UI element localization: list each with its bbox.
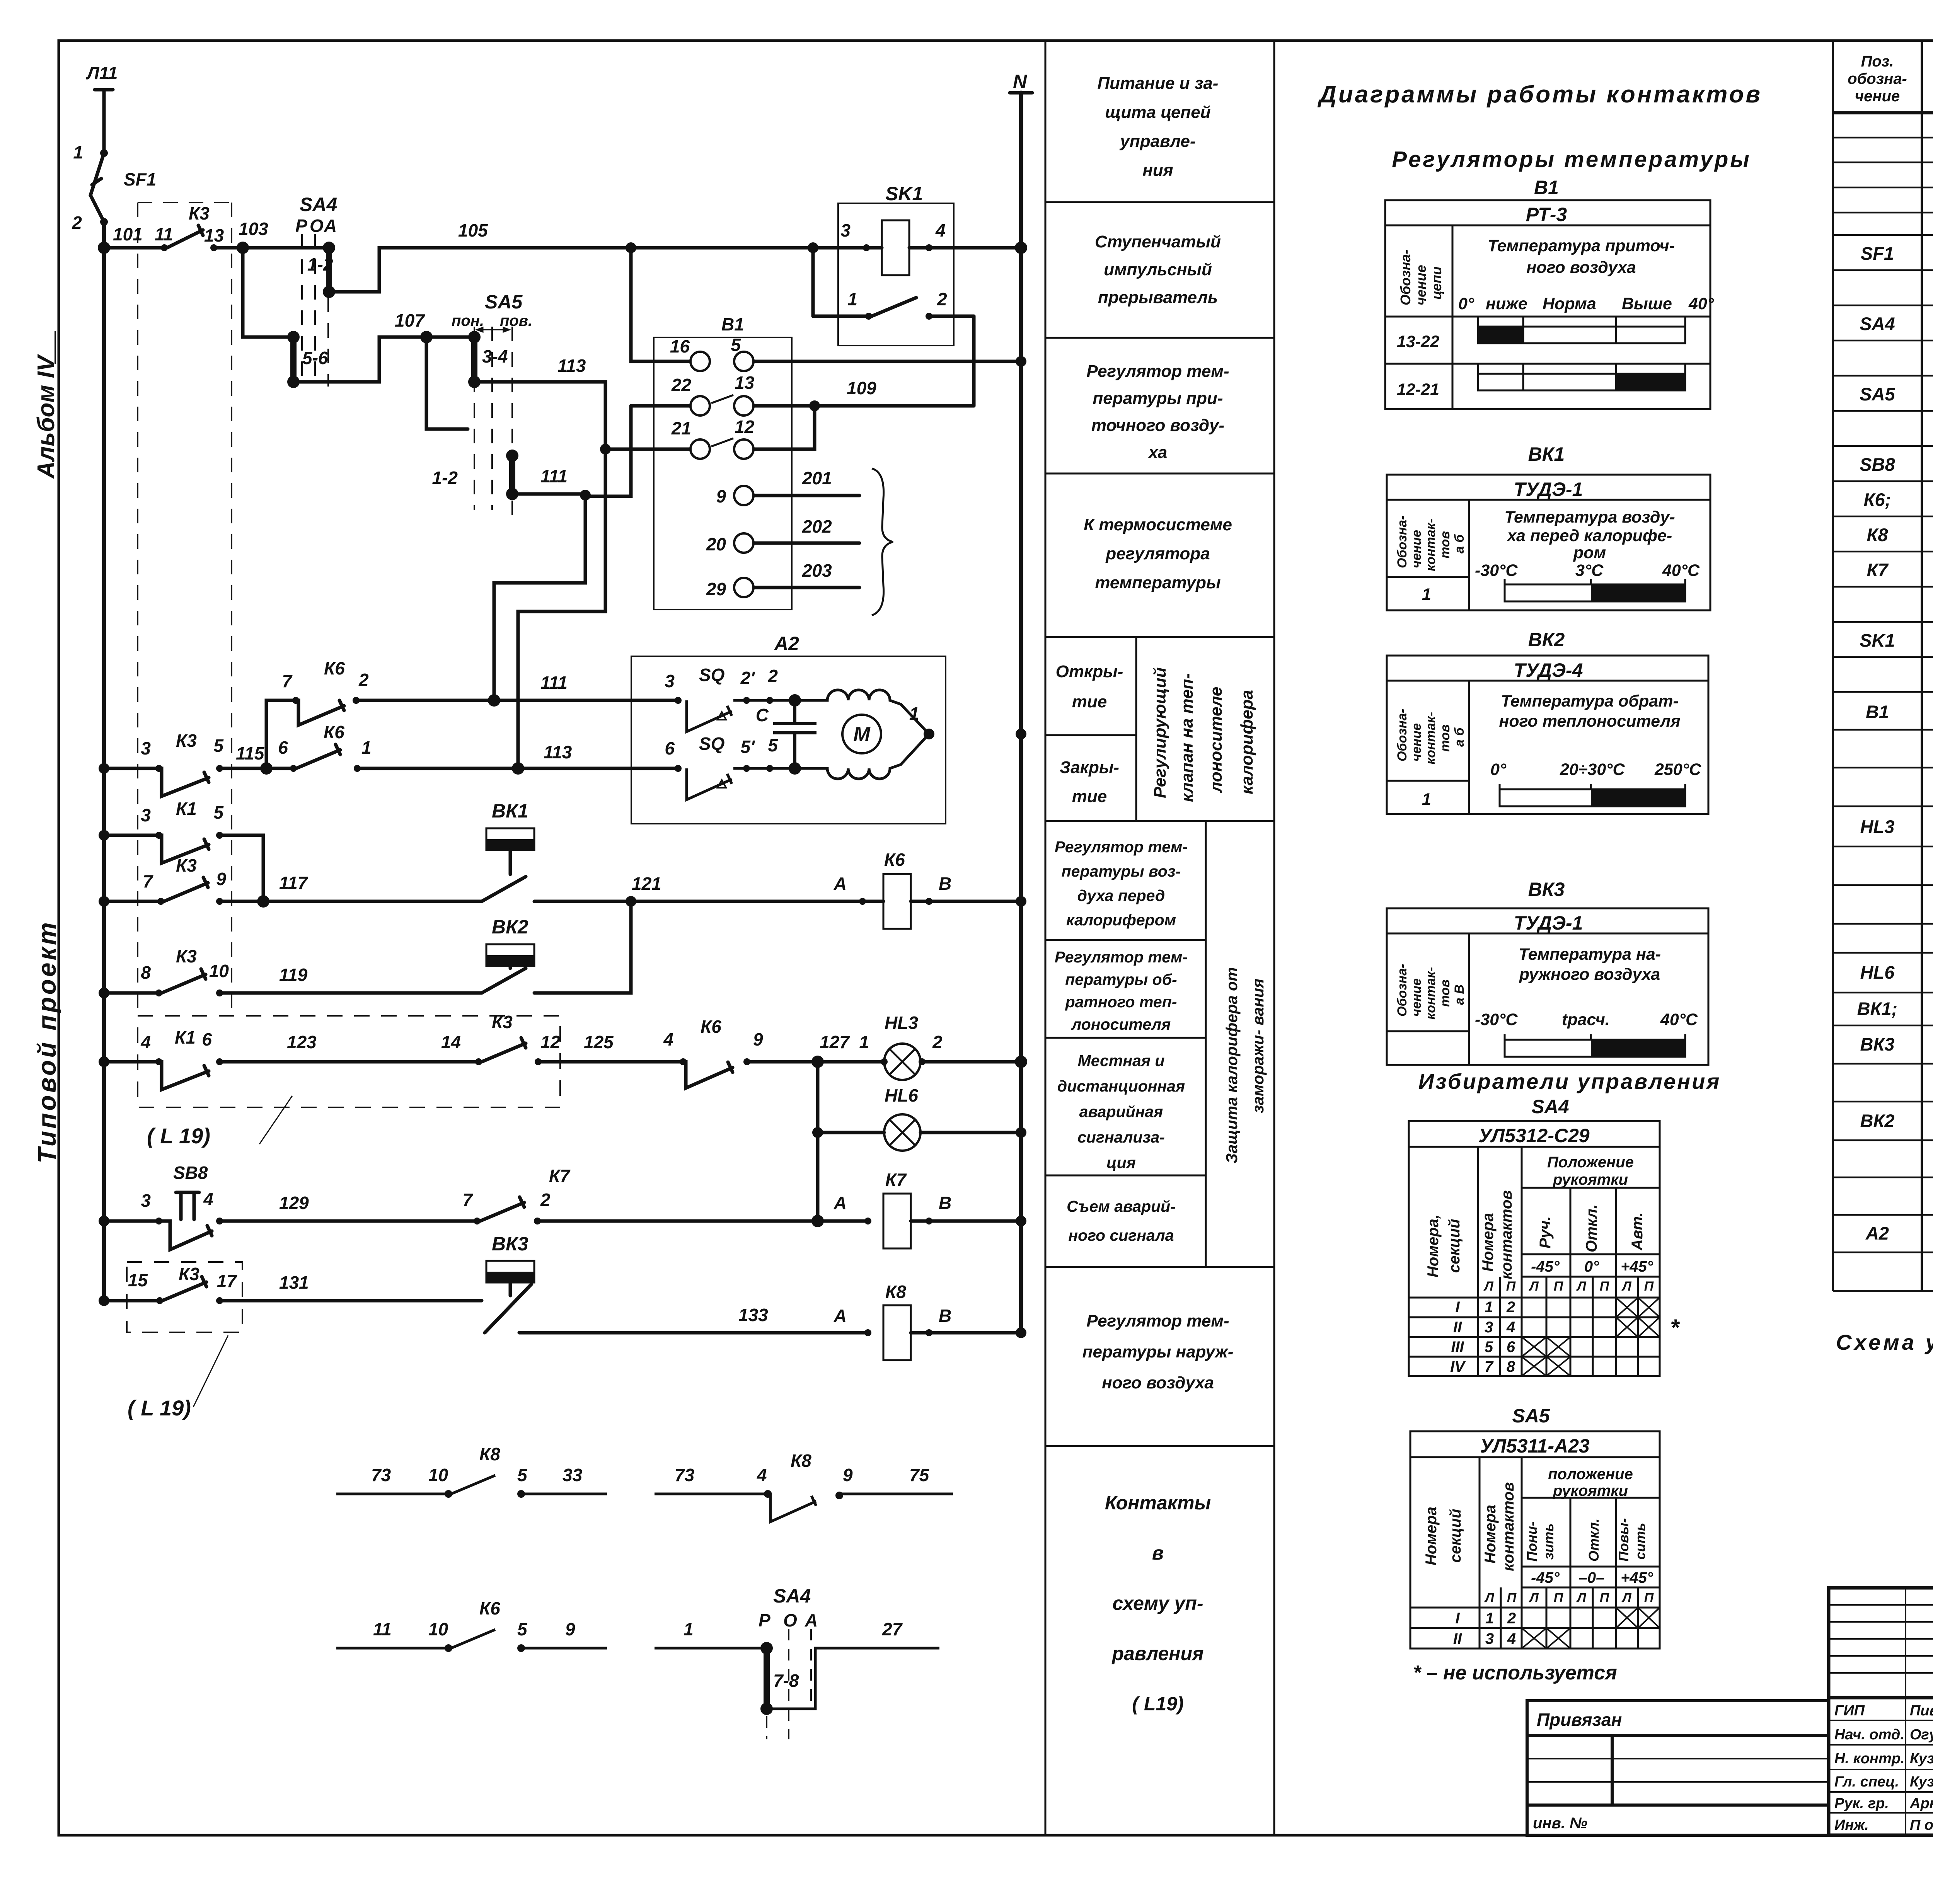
svg-text:1: 1 (847, 289, 857, 309)
svg-text:SQ: SQ (699, 665, 725, 685)
svg-text:-45°: -45° (1531, 1258, 1560, 1275)
svg-text:К3: К3 (176, 731, 197, 751)
svg-text:9: 9 (716, 486, 726, 506)
relay coil К8 (883, 1305, 911, 1360)
svg-text:пературы об-: пературы об- (1065, 971, 1177, 988)
svg-text:Пивторак: Пивторак (1910, 1703, 1933, 1719)
parts list table (1833, 41, 1933, 1291)
lamp HL6 (818, 1131, 884, 1134)
svg-text:121: 121 (632, 874, 661, 894)
svg-text:250°С: 250°С (1654, 760, 1701, 779)
svg-text:40°С: 40°С (1662, 561, 1700, 580)
svg-text:2: 2 (358, 670, 369, 690)
svg-text:К3: К3 (176, 946, 197, 966)
svg-text:ха: ха (1148, 443, 1167, 462)
svg-text:3: 3 (1485, 1319, 1493, 1336)
svg-text:9: 9 (565, 1619, 575, 1639)
svg-text:7: 7 (143, 871, 153, 891)
svg-text:202: 202 (802, 516, 832, 536)
svg-text:ция: ция (1106, 1154, 1136, 1172)
contact К6 7-2 (296, 700, 344, 725)
svg-text:Н. контр.: Н. контр. (1834, 1751, 1905, 1767)
capacitor C (773, 700, 816, 768)
svg-text:ТУДЭ-1: ТУДЭ-1 (1514, 912, 1583, 934)
svg-text:К6: К6 (324, 658, 345, 678)
margin label Альбом IV (33, 331, 60, 479)
svg-text:ВК1: ВК1 (492, 800, 528, 822)
svg-text:Температура на-: Температура на- (1519, 945, 1661, 964)
svg-text:Откл.: Откл. (1586, 1518, 1602, 1562)
spare contact К8 10-5 (336, 1475, 607, 1494)
svg-text:II: II (1453, 1319, 1462, 1336)
svg-text:1: 1 (684, 1619, 694, 1639)
svg-text:лоносителя: лоносителя (1071, 1015, 1171, 1033)
svg-text:3: 3 (665, 671, 675, 691)
svg-text:HL3: HL3 (1860, 816, 1895, 837)
svg-text:Л11: Л11 (86, 63, 118, 83)
svg-text:Номера: Номера (1480, 1213, 1497, 1272)
svg-text:73: 73 (675, 1465, 695, 1485)
svg-text:2: 2 (72, 213, 82, 233)
svg-text:пературы воз-: пературы воз- (1062, 862, 1181, 880)
svg-text:ратного теп-: ратного теп- (1065, 993, 1177, 1011)
svg-text:Л: Л (1483, 1279, 1493, 1294)
svg-text:тов: тов (1438, 979, 1452, 1007)
svg-text:40°: 40° (1688, 295, 1714, 313)
svg-text:ВК2: ВК2 (492, 916, 528, 938)
svg-text:а В: а В (1452, 984, 1467, 1005)
svg-text:П: П (1506, 1279, 1516, 1294)
rung 117 (104, 900, 161, 903)
svg-text:7: 7 (462, 1190, 473, 1210)
svg-text:контактов: контактов (1498, 1190, 1515, 1279)
svg-text:рукоятки: рукоятки (1553, 1482, 1628, 1499)
svg-text:tрасч.: tрасч. (1562, 1010, 1610, 1029)
svg-text:Номера: Номера (1482, 1505, 1499, 1563)
rung 131 (104, 1299, 160, 1303)
svg-text:В: В (939, 1306, 951, 1326)
svg-text:Регуляторы температуры: Регуляторы температуры (1392, 147, 1751, 172)
svg-text:6: 6 (665, 738, 675, 758)
svg-text:К7: К7 (885, 1170, 907, 1190)
svg-text:SA5: SA5 (485, 291, 523, 313)
svg-text:ВК1: ВК1 (1528, 443, 1565, 465)
wire 113 drop to lower rung (518, 449, 605, 768)
svg-text:сигнализа-: сигнализа- (1077, 1128, 1165, 1146)
svg-text:SA4: SA4 (300, 194, 337, 215)
pushbutton SB8 (159, 1221, 212, 1250)
svg-text:П: П (1600, 1279, 1610, 1294)
svg-text:75: 75 (909, 1465, 930, 1485)
svg-text:регулятора: регулятора (1105, 544, 1210, 563)
svg-text:в: в (1152, 1542, 1164, 1564)
svg-text:Съем аварий-: Съем аварий- (1067, 1197, 1176, 1215)
breaker SK1 coil 3-4 (882, 220, 909, 275)
svg-text:обозна-: обозна- (1848, 70, 1907, 87)
svg-text:13-22: 13-22 (1397, 332, 1439, 351)
wire 113 upper (474, 382, 605, 449)
svg-text:Ступенчатый: Ступенчатый (1095, 232, 1221, 251)
svg-text:калорифера: калорифера (1238, 690, 1256, 794)
svg-text:Обозна-: Обозна- (1398, 250, 1413, 305)
svg-text:5: 5 (517, 1465, 528, 1485)
svg-text:К8: К8 (1867, 525, 1888, 545)
svg-text:+45°: +45° (1621, 1258, 1653, 1275)
svg-text:5: 5 (1485, 1339, 1493, 1356)
svg-text:3: 3 (840, 220, 851, 240)
wire 115 (220, 767, 293, 770)
svg-text:прерыватель: прерыватель (1098, 288, 1218, 307)
svg-text:SK1: SK1 (1860, 630, 1895, 651)
box B1 (654, 337, 792, 610)
svg-text:Л: Л (1621, 1591, 1631, 1605)
wire B1 pin16 feed (631, 248, 690, 361)
contact К6 6-1 (296, 750, 340, 768)
svg-text:А2: А2 (774, 633, 799, 654)
svg-text:Обозна-: Обозна- (1395, 964, 1410, 1017)
wire 107 branch (243, 248, 293, 337)
svg-text:ниже: ниже (1486, 295, 1527, 313)
svg-text:К6: К6 (479, 1598, 500, 1618)
svg-text:10: 10 (209, 961, 229, 981)
rung 119 (104, 991, 159, 995)
svg-text:4: 4 (935, 220, 946, 240)
svg-text:17: 17 (217, 1271, 238, 1291)
svg-text:К3: К3 (176, 855, 197, 875)
svg-text:ружного воздуха: ружного воздуха (1519, 965, 1660, 984)
svg-text:113: 113 (544, 742, 572, 762)
svg-text:тов: тов (1438, 531, 1452, 559)
svg-text:201: 201 (802, 468, 832, 488)
svg-text:119: 119 (279, 965, 308, 985)
svg-text:1: 1 (73, 142, 83, 162)
svg-text:В: В (939, 1193, 951, 1213)
svg-text:0°: 0° (1584, 1258, 1599, 1275)
svg-text:5: 5 (213, 802, 224, 823)
svg-text:1: 1 (1422, 790, 1431, 809)
svg-text:2: 2 (1506, 1299, 1515, 1316)
power rail Л11 lead-in (95, 88, 113, 92)
svg-text:133: 133 (738, 1305, 768, 1325)
switch SA5 3-4 bar (471, 337, 477, 382)
wire 121 (534, 900, 863, 903)
svg-text:-30°С: -30°С (1475, 561, 1518, 580)
contact К3 14-12 (482, 1043, 526, 1062)
svg-text:Регулятор тем-: Регулятор тем- (1055, 838, 1188, 856)
svg-text:2: 2 (937, 289, 947, 309)
wire B1 pin12 up to 109 (753, 406, 815, 449)
svg-text:А: А (834, 874, 847, 894)
contact К3 15-17 (162, 1282, 206, 1301)
svg-text:Типовой проект: Типовой проект (32, 920, 61, 1163)
svg-text:SF1: SF1 (124, 169, 156, 189)
svg-text:РТ-3: РТ-3 (1526, 204, 1567, 225)
contact К6 4-9 (683, 1062, 733, 1088)
svg-text:131: 131 (279, 1272, 309, 1293)
svg-text:13: 13 (735, 373, 755, 393)
svg-text:Поз.: Поз. (1861, 53, 1894, 70)
box A2 (631, 656, 946, 824)
svg-text:К8: К8 (479, 1444, 500, 1464)
svg-text:импульсный: импульсный (1104, 260, 1212, 279)
svg-text:УЛ5311-А23: УЛ5311-А23 (1480, 1435, 1590, 1457)
rung К1 3-5 (104, 834, 159, 837)
spare switch SA4 7-8 (655, 1648, 939, 1709)
svg-text:1: 1 (1485, 1610, 1494, 1627)
svg-text:точного возду-: точного возду- (1091, 416, 1224, 435)
svg-text:21: 21 (671, 418, 691, 438)
contact К1 4-6 (159, 1062, 209, 1090)
svg-text:Рук. гр.: Рук. гр. (1834, 1795, 1889, 1812)
svg-text:ного сигнала: ного сигнала (1068, 1226, 1174, 1244)
svg-text:секций: секций (1446, 1219, 1463, 1273)
svg-text:6: 6 (1507, 1339, 1515, 1356)
svg-text:0°: 0° (1490, 760, 1507, 779)
svg-text:( L 19): ( L 19) (128, 1396, 191, 1420)
svg-text:115: 115 (236, 743, 265, 763)
svg-text:К8: К8 (791, 1451, 811, 1471)
svg-text:5-6: 5-6 (302, 348, 328, 368)
svg-text:Температура приточ-: Температура приточ- (1488, 237, 1675, 255)
svg-text:М: М (853, 723, 871, 746)
rung 129 (104, 1219, 159, 1223)
svg-text:ГИП: ГИП (1834, 1703, 1865, 1719)
svg-text:УЛ5312-С29: УЛ5312-С29 (1478, 1125, 1589, 1146)
svg-text:SA5: SA5 (1512, 1405, 1550, 1427)
contact К1 3-5 (159, 835, 209, 863)
svg-text:8: 8 (1507, 1358, 1515, 1375)
thermal contact ВК2 (486, 944, 534, 966)
B1 terminal circles (690, 352, 753, 597)
node 127 drop (816, 1062, 820, 1221)
wire 101 (104, 246, 164, 250)
svg-text:А: А (834, 1306, 847, 1326)
svg-text:3: 3 (1485, 1630, 1494, 1647)
svg-text:ха перед калорифе-: ха перед калорифе- (1507, 526, 1672, 545)
svg-text:Повы-: Повы- (1616, 1518, 1631, 1562)
svg-text:Обозна-: Обозна- (1395, 709, 1410, 761)
svg-text:Выше: Выше (1622, 295, 1672, 313)
function column texts (1055, 74, 1267, 1715)
SK1 contact 1-2 (811, 248, 815, 316)
svg-text:Защита калорифера от: Защита калорифера от (1223, 967, 1241, 1163)
svg-text:Номера: Номера (1423, 1507, 1440, 1565)
svg-text:ВК3: ВК3 (1528, 879, 1565, 900)
svg-text:73: 73 (371, 1465, 391, 1485)
svg-text:7: 7 (1485, 1358, 1494, 1375)
svg-text:а б: а б (1452, 727, 1467, 747)
N bus (1010, 91, 1032, 95)
svg-text:40°С: 40°С (1660, 1010, 1698, 1029)
svg-text:22: 22 (671, 375, 692, 395)
svg-text:Л: Л (1484, 1591, 1494, 1605)
svg-text:203: 203 (802, 560, 832, 581)
svg-text:ВК3: ВК3 (1860, 1034, 1895, 1054)
dashed panel boundary lines (138, 203, 512, 1016)
svg-text:27: 27 (882, 1619, 903, 1639)
svg-text:схему уп-: схему уп- (1112, 1592, 1203, 1614)
svg-text:9: 9 (753, 1029, 763, 1049)
svg-text:10: 10 (428, 1619, 448, 1639)
svg-text:ного воздуха: ного воздуха (1526, 258, 1636, 277)
svg-text:Л: Л (1621, 1279, 1631, 1294)
svg-text:чение: чение (1855, 88, 1900, 105)
svg-text:ром: ром (1573, 543, 1606, 562)
wire B1 pin5 to N (753, 360, 1021, 363)
svg-text:инв. №: инв. № (1533, 1815, 1587, 1832)
svg-text:духа перед: духа перед (1077, 887, 1165, 904)
svg-text:14: 14 (441, 1032, 461, 1052)
SQ contact blades (687, 700, 795, 800)
svg-text:Огурцов: Огурцов (1910, 1727, 1933, 1743)
svg-text:8: 8 (141, 962, 151, 983)
svg-text:SQ: SQ (699, 734, 725, 754)
svg-text:температуры: температуры (1095, 573, 1220, 592)
svg-text:3: 3 (141, 805, 151, 825)
svg-text:К6: К6 (884, 850, 905, 870)
svg-text:Арнаутова: Арнаутова (1909, 1795, 1933, 1812)
svg-text:10: 10 (428, 1465, 448, 1485)
svg-text:А: А (834, 1193, 847, 1213)
svg-text:Р: Р (759, 1610, 770, 1630)
svg-text:*: * (1670, 1315, 1680, 1340)
leader line L19 lower (193, 1335, 228, 1407)
svg-text:ВК2: ВК2 (1860, 1110, 1895, 1131)
lamp HL3 (884, 1044, 920, 1080)
svg-text:3: 3 (141, 1190, 151, 1211)
svg-text:12-21: 12-21 (1397, 380, 1439, 399)
svg-text:11: 11 (373, 1619, 392, 1639)
svg-text:чение: чение (1409, 723, 1424, 761)
svg-text:а б: а б (1452, 534, 1467, 553)
dashed box L19 lower (127, 1262, 242, 1332)
wire ВК2 out to 121 (534, 901, 631, 993)
svg-text:ВК1;: ВК1; (1857, 998, 1898, 1019)
thermal contact ВК1 (486, 828, 534, 850)
svg-text:1-2: 1-2 (307, 254, 333, 274)
wire 125 (538, 1060, 683, 1064)
svg-text:аварийная: аварийная (1079, 1103, 1163, 1121)
svg-text:III: III (1451, 1339, 1464, 1356)
svg-text:лоносителе: лоносителе (1207, 687, 1226, 793)
svg-text:2: 2 (767, 666, 778, 686)
svg-text:9: 9 (843, 1465, 853, 1485)
svg-text:0°: 0° (1458, 295, 1474, 313)
svg-text:О: О (783, 1610, 797, 1630)
svg-text:( L 19): ( L 19) (147, 1124, 210, 1148)
svg-text:контак-: контак- (1423, 712, 1438, 765)
svg-text:-45°: -45° (1531, 1569, 1560, 1586)
wire 113 rung (357, 767, 678, 770)
svg-text:Л: Л (1576, 1279, 1586, 1294)
svg-text:Откры-: Откры- (1056, 662, 1123, 681)
svg-text:4: 4 (663, 1029, 673, 1049)
wire 201 (753, 494, 859, 497)
contact К3 7-9 (164, 883, 208, 901)
svg-text:4: 4 (757, 1465, 767, 1485)
leader line L19 upper (259, 1096, 292, 1144)
svg-text:С: С (756, 705, 769, 725)
wire 203 (753, 586, 859, 589)
relay coil К6 (883, 874, 911, 929)
svg-text:Закры-: Закры- (1060, 758, 1119, 777)
switch SA4 5-6 bar (290, 337, 297, 382)
svg-text:К7: К7 (549, 1166, 571, 1186)
svg-text:пературы при-: пературы при- (1093, 389, 1223, 408)
svg-text:2: 2 (540, 1190, 551, 1210)
svg-text:тие: тие (1072, 787, 1107, 806)
svg-text:П: П (1554, 1279, 1564, 1294)
svg-text:-30°С: -30°С (1475, 1010, 1518, 1029)
svg-text:П оимкина: П оимкина (1910, 1817, 1933, 1833)
wire 111 jog from SA5 (494, 494, 585, 700)
svg-text:101: 101 (113, 224, 143, 244)
svg-text:33: 33 (563, 1465, 583, 1485)
svg-text:Пони-: Пони- (1524, 1521, 1540, 1562)
svg-text:5': 5' (740, 737, 755, 757)
svg-text:Номера,: Номера, (1425, 1214, 1442, 1277)
svg-text:+45°: +45° (1621, 1569, 1653, 1586)
schematic labels (72, 63, 1027, 1420)
svg-text:ТУДЭ-4: ТУДЭ-4 (1514, 659, 1583, 681)
svg-text:калорифером: калорифером (1066, 911, 1176, 929)
svg-text:контак-: контак- (1423, 519, 1438, 571)
left bus L11 (102, 222, 106, 1301)
svg-text:К термосистеме: К термосистеме (1084, 515, 1232, 534)
svg-text:127: 127 (820, 1032, 850, 1052)
svg-text:7-8: 7-8 (773, 1671, 799, 1691)
wire 117 (263, 900, 482, 903)
svg-text:контактов: контактов (1500, 1482, 1517, 1571)
rung 123 (104, 1060, 159, 1064)
svg-text:ТУДЭ-1: ТУДЭ-1 (1514, 479, 1583, 500)
title block (1829, 1588, 1933, 1835)
svg-text:13: 13 (204, 225, 224, 245)
svg-text:6: 6 (278, 737, 288, 758)
svg-text:111: 111 (540, 466, 568, 486)
svg-text:113: 113 (557, 356, 586, 376)
svg-text:Избиратели управления: Избиратели управления (1418, 1069, 1721, 1093)
wire 202 (753, 542, 859, 545)
SA4 X marks (1522, 1298, 1660, 1376)
svg-text:4: 4 (1506, 1319, 1515, 1336)
svg-text:3°С: 3°С (1575, 561, 1604, 580)
wire B1 pin22 (631, 404, 690, 408)
svg-text:П: П (1644, 1591, 1654, 1605)
svg-text:тов: тов (1438, 724, 1452, 752)
svg-text:равления: равления (1111, 1643, 1204, 1664)
svg-text:Температура возду-: Температура возду- (1504, 508, 1675, 526)
svg-text:SA4: SA4 (1531, 1096, 1569, 1117)
switch SA5 1-2 bar (509, 456, 515, 494)
svg-text:К7: К7 (1867, 560, 1889, 580)
svg-text:К8: К8 (885, 1282, 906, 1302)
contact К3 8-10 (162, 974, 206, 993)
box SK1 (838, 203, 954, 346)
svg-text:заморажи- вания: заморажи- вания (1249, 979, 1267, 1113)
wire node to B1 pin22 (585, 406, 631, 496)
svg-text:12: 12 (735, 417, 755, 437)
svg-text:2': 2' (740, 668, 755, 688)
wire to 117 node (220, 835, 263, 901)
svg-text:Местная и: Местная и (1078, 1052, 1165, 1070)
wire 109 (753, 404, 974, 408)
svg-text:Авт.: Авт. (1629, 1212, 1646, 1251)
svg-text:К1: К1 (175, 1027, 196, 1047)
svg-text:сить: сить (1632, 1523, 1648, 1560)
svg-text:Кузнецов: Кузнецов (1910, 1751, 1933, 1767)
svg-text:5: 5 (768, 735, 778, 755)
